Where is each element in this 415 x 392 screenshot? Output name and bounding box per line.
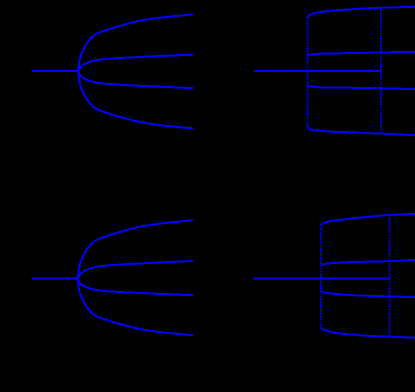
- wire: upper-right panel center line: [254, 70, 380, 72]
- branch curve: lower-right panel inner top branch: [321, 260, 415, 265]
- branch curve: lower-right panel outer top branch: [322, 214, 415, 225]
- dotted jump line: lower-right panel second vertical: [388, 214, 390, 336]
- branch curve: lower-left panel inner top branch: [78, 261, 194, 279]
- wire: lower-left panel stem line: [32, 278, 79, 280]
- branch curve: upper-left panel outer bottom branch: [78, 72, 194, 129]
- branch curve: lower-right panel outer bottom branch: [321, 328, 415, 338]
- branch curve: lower-left panel outer top branch: [78, 220, 194, 279]
- branch curve: lower-left panel inner bottom branch: [78, 279, 194, 295]
- wire: upper-left panel stem line: [32, 70, 79, 72]
- dotted jump line: lower-right panel first vertical: [320, 224, 322, 327]
- dotted jump line: upper-right panel second vertical: [380, 7, 382, 133]
- branch curve: upper-right panel outer top branch: [308, 7, 415, 18]
- branch curve: upper-right panel inner top branch: [308, 52, 415, 55]
- branch curve: upper-left panel inner bottom branch: [78, 72, 194, 89]
- branch curve: upper-right panel outer bottom branch: [308, 126, 415, 135]
- dotted jump line: upper-right panel first vertical: [307, 17, 309, 126]
- branch curve: upper-left panel outer top branch: [78, 14, 194, 71]
- wire: lower-right panel center line: [253, 277, 389, 279]
- branch curve: lower-left panel outer bottom branch: [78, 279, 194, 335]
- branch curve: upper-left panel inner top branch: [78, 55, 194, 72]
- branch curve: upper-right panel inner bottom branch: [308, 86, 415, 89]
- branch curve: lower-right panel inner bottom branch: [321, 292, 415, 298]
